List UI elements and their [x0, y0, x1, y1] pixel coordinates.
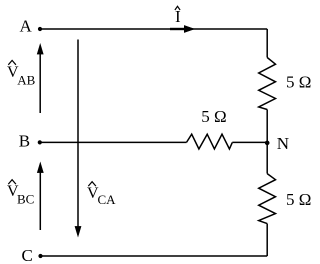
- wire: R1 to node N: [266, 110, 268, 143]
- current arrow on phase A wire: [170, 28, 185, 30]
- svg-text:CA: CA: [98, 192, 117, 207]
- voltage arrow V_AB (pointing up): [39, 52, 41, 113]
- svg-text:N: N: [277, 134, 289, 153]
- svg-text:C: C: [22, 246, 33, 264]
- voltage arrow V_BC (pointing up): [39, 171, 41, 231]
- resistor R1 (5 ohm, vertical, phase A to N): [259, 58, 276, 110]
- svg-text:5 Ω: 5 Ω: [201, 107, 226, 126]
- node B terminal dot: [38, 140, 42, 144]
- wire: phase B horizontal from node B to resistor R2: [40, 141, 187, 143]
- svg-text:5 Ω: 5 Ω: [286, 190, 311, 209]
- resistor R2 (5 ohm, horizontal): [187, 134, 233, 149]
- svg-text:5 Ω: 5 Ω: [286, 73, 311, 92]
- svg-text:AB: AB: [17, 73, 35, 88]
- wire: phase C horizontal from node C to bottom-right corner: [41, 255, 268, 257]
- svg-text:BC: BC: [17, 191, 34, 206]
- node C terminal dot: [38, 254, 42, 258]
- wire: R3 to bottom-right corner: [266, 224, 268, 256]
- resistor R3 (5 ohm, vertical, N to phase C): [259, 174, 276, 224]
- node N junction dot: [265, 141, 270, 146]
- node A terminal dot: [38, 27, 42, 31]
- wire: right vertical, top corner down to resistor R1: [266, 29, 268, 58]
- voltage arrow V_CA (long, pointing down): [77, 40, 79, 229]
- svg-text:A: A: [20, 17, 33, 36]
- wire: node N down to resistor R3: [266, 143, 268, 174]
- svg-text:B: B: [19, 132, 30, 151]
- wire: phase A horizontal from node A to top-right corner: [40, 28, 267, 30]
- wire: R2 to node N: [232, 141, 267, 143]
